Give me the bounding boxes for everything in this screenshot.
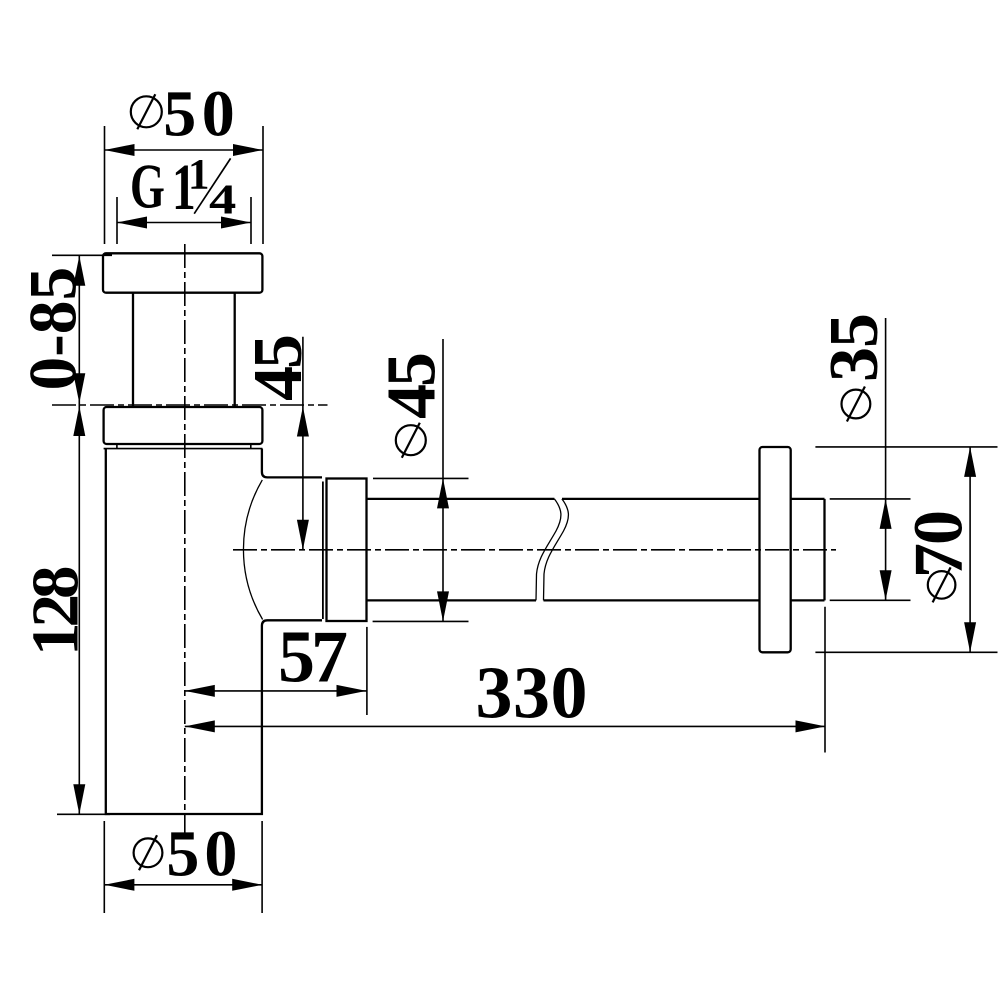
svg-text:G: G <box>130 151 165 222</box>
svg-text:1: 1 <box>188 152 210 199</box>
svg-text:50: 50 <box>166 817 242 890</box>
svg-text:35: 35 <box>816 314 893 382</box>
svg-text:45: 45 <box>374 354 451 419</box>
svg-text:128: 128 <box>19 567 93 656</box>
svg-text:45: 45 <box>240 336 317 401</box>
svg-text:50: 50 <box>163 78 240 151</box>
svg-text:330: 330 <box>476 653 589 735</box>
svg-text:57: 57 <box>278 617 347 699</box>
svg-text:4: 4 <box>209 176 236 223</box>
svg-text:70: 70 <box>901 512 978 578</box>
svg-text:0-85: 0-85 <box>16 267 91 391</box>
